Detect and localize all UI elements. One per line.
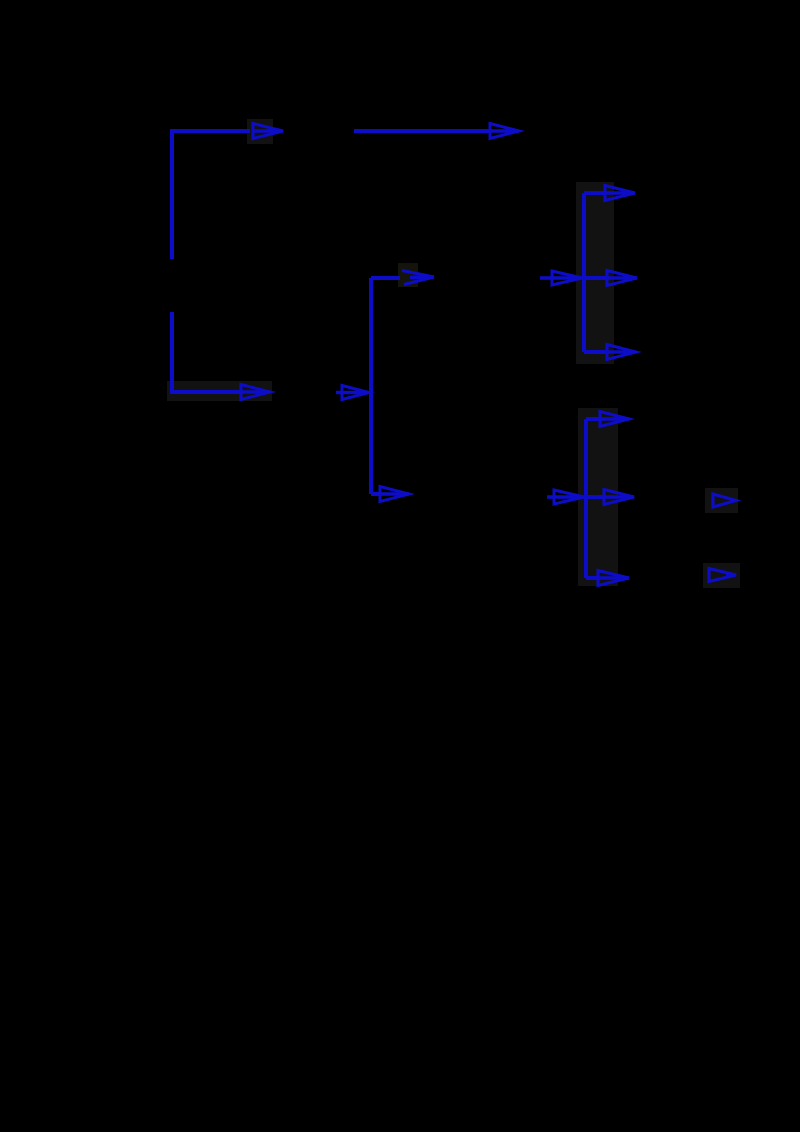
wire bracket-3 mid branch <box>584 276 607 280</box>
wire bracket-4 vertical <box>584 419 588 578</box>
arrowhead bracket-2 top (tilted) <box>402 271 434 285</box>
arrowhead into bracket-2 junction <box>336 386 369 400</box>
arrowhead bracket-4 bottom <box>598 571 629 586</box>
faint label boxes <box>167 119 740 588</box>
arrowhead bracket-4 top <box>600 412 629 427</box>
arrowhead grandchild <box>490 124 519 139</box>
wire bracket-4 top branch <box>586 417 601 421</box>
wire bracket-3 top branch <box>584 191 605 195</box>
arrowhead leaf-right upper <box>713 494 736 507</box>
wire bracket-4 bottom branch <box>586 576 599 580</box>
wire bracket-3 bottom branch <box>584 350 607 354</box>
node root (invisible black text area) <box>60 250 160 290</box>
wire bracket-4 mid branch <box>586 495 604 499</box>
wire bracket-1 vertical lower <box>172 312 243 392</box>
wire bracket-1 vertical upper <box>172 131 250 259</box>
arrowhead bracket-2 bottom <box>380 487 409 502</box>
arrowhead leaf-right lower <box>709 569 736 582</box>
arrowhead bracket-3 top <box>605 186 635 201</box>
arrowhead into bracket-4 junction <box>547 490 584 504</box>
arrowhead bracket-4 mid <box>604 490 634 505</box>
arrowhead into node B <box>241 385 270 400</box>
wire bracket-3 vertical <box>582 193 586 352</box>
wire bracket-2 top branch <box>371 276 400 280</box>
wire node A to grandchild <box>354 129 490 133</box>
wire bracket-2 vertical <box>369 278 373 494</box>
arrowhead bracket-3 bottom <box>607 345 636 360</box>
arrowhead into bracket-3 junction <box>540 271 582 285</box>
arrowhead into node A <box>253 124 283 139</box>
arrowhead bracket-3 mid <box>607 271 637 286</box>
wire bracket-2 bottom branch <box>371 492 381 496</box>
